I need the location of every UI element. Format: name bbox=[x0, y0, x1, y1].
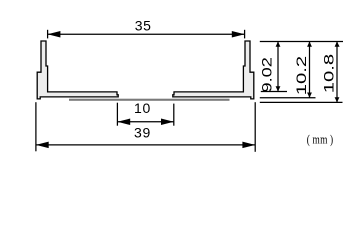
svg-text:10.2: 10.2 bbox=[293, 56, 309, 95]
dimension 35: right arrowhead bbox=[232, 31, 245, 38]
dimension 10.8: bottom arrowhead bbox=[335, 97, 340, 102]
profile right half (wall + flange + foot) bbox=[173, 41, 254, 99]
svg-text:10: 10 bbox=[134, 100, 151, 116]
dimension 10.8: top arrowhead bbox=[335, 42, 340, 47]
profile left half (wall + flange + foot) bbox=[37, 41, 118, 99]
dimension 10: left extension line bbox=[116, 103, 118, 126]
adhesive strip under base bbox=[69, 99, 230, 101]
dimension 10: right arrowhead bbox=[161, 119, 174, 126]
dimension 10.8: bottom extension line bbox=[260, 101, 343, 103]
dimension 10: left arrowhead bbox=[117, 119, 130, 126]
dimension 39: left arrowhead bbox=[36, 142, 49, 149]
dimension 39: right extension line bbox=[254, 102, 256, 152]
dimension 39: left extension line bbox=[35, 102, 37, 151]
dimension 10.2: dimension line bbox=[309, 42, 311, 98]
dimension 10.2: bottom arrowhead bbox=[307, 93, 312, 98]
dimension 9.02: top arrowhead bbox=[276, 42, 281, 47]
dimension 35: left arrowhead bbox=[48, 31, 61, 38]
shared top extension line for height dimensions bbox=[260, 41, 343, 43]
dimension 39: right arrowhead bbox=[242, 142, 255, 149]
dimension 35: dimension line bbox=[48, 33, 245, 35]
svg-text:39: 39 bbox=[134, 125, 151, 141]
svg-text:( mm ): ( mm ) bbox=[307, 133, 334, 147]
svg-text:35: 35 bbox=[135, 18, 152, 34]
svg-text:9.02: 9.02 bbox=[259, 57, 275, 92]
dimension 10.2: bottom extension line bbox=[260, 97, 316, 99]
dimension 35: left extension line bbox=[47, 30, 49, 39]
dimension 10: right extension line bbox=[173, 104, 175, 126]
svg-text:10.8: 10.8 bbox=[321, 54, 337, 93]
dimension 10: dimension line bbox=[117, 121, 173, 123]
dimension 39: dimension line bbox=[36, 144, 255, 146]
dimension 35: right extension line bbox=[244, 30, 246, 39]
dimension 10.8: dimension line bbox=[336, 42, 338, 103]
dimension 9.02: bottom arrowhead bbox=[276, 86, 281, 91]
dimension 10.2: top arrowhead bbox=[307, 42, 312, 47]
dimension 9.02: bottom extension line bbox=[261, 91, 287, 93]
dimension 9.02: dimension line bbox=[277, 42, 279, 92]
